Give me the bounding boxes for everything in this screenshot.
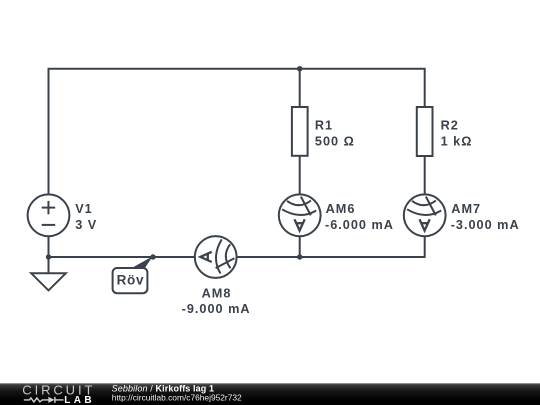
- svg-text:500 Ω: 500 Ω: [315, 135, 355, 149]
- svg-text:R2: R2: [441, 118, 459, 132]
- svg-text:http://circuitlab.com/c76hej95: http://circuitlab.com/c76hej952r732: [112, 393, 242, 403]
- svg-text:V1: V1: [75, 202, 93, 216]
- svg-text:AM8: AM8: [202, 287, 232, 301]
- svg-text:AM6: AM6: [326, 202, 356, 216]
- svg-text:3 V: 3 V: [75, 218, 97, 232]
- svg-text:Röv: Röv: [117, 272, 145, 287]
- svg-text:-9.000 mA: -9.000 mA: [182, 302, 251, 316]
- svg-text:R1: R1: [315, 118, 333, 132]
- svg-text:-3.000 mA: -3.000 mA: [451, 218, 520, 232]
- svg-text:AM7: AM7: [451, 202, 481, 216]
- svg-text:-6.000 mA: -6.000 mA: [325, 218, 394, 232]
- svg-text:1 kΩ: 1 kΩ: [441, 135, 473, 149]
- svg-text:LAB: LAB: [64, 395, 95, 405]
